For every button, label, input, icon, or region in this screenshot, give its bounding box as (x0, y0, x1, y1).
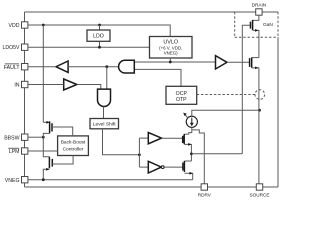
wire current source bottom node (189, 127, 192, 134)
wire T1 out to M1 gate (162, 137, 183, 139)
pin LDO5V (22, 44, 28, 50)
node VDD/left-rail junction (42, 24, 45, 27)
pin VNEG (22, 177, 28, 183)
svg-text:IN: IN (14, 83, 19, 89)
AND gate A1 (points left) (119, 60, 135, 73)
svg-text:Controller: Controller (63, 146, 84, 152)
svg-text:Back-Boost: Back-Boost (61, 140, 86, 146)
transistor Q2 lower back-boost FET (43, 137, 49, 157)
svg-text:BBSW: BBSW (4, 135, 19, 141)
wire to T2 input (139, 166, 148, 168)
current source I1 (186, 116, 197, 127)
wire BBSW pin to rail (28, 136, 43, 138)
wire to T1 input (139, 137, 148, 139)
wire IN pin to buffer (28, 84, 64, 86)
wire node to RDRV pin (192, 130, 205, 184)
pin SOURCE (256, 184, 262, 190)
wire Q2 gate to controller (52, 156, 73, 165)
wire IN buffer out to AND2 (77, 85, 101, 90)
driver buffer T1 (non-inverting) (148, 133, 161, 144)
svg-text:RDRV: RDRV (198, 192, 212, 197)
node source rail junction (258, 109, 261, 112)
wire output node to GaN gate line (191, 153, 242, 155)
IN input buffer (points right) (64, 79, 77, 90)
svg-text:LDO5V: LDO5V (2, 45, 20, 51)
pin VDD (22, 22, 28, 28)
UVLO block U2 (150, 37, 193, 59)
wire T2 out to M2 gate (164, 166, 183, 168)
inverter bubble (161, 166, 164, 169)
transistor Q1 upper back-boost FET (43, 121, 49, 123)
node VNEG junction (42, 178, 45, 181)
LDO block (87, 30, 110, 41)
svg-text:VNEG: VNEG (5, 178, 20, 184)
wire UVLO output to AND/buffer (169, 58, 171, 62)
transistor Q4 GaN HEMT (253, 15, 259, 21)
wire current source top to source rail (192, 110, 260, 116)
wire driver input vertical (138, 138, 140, 167)
pin RDRV (201, 184, 207, 190)
transistor Q5 cascode FET (252, 57, 259, 59)
svg-text:VDD: VDD (9, 23, 20, 29)
Back-Boost Controller block (58, 136, 89, 156)
wire AND1 output to FAULT buffer (68, 66, 119, 68)
node FAULT wire junction (105, 65, 108, 68)
wire Level Shift output to driver inputs (103, 129, 140, 155)
node gate drive output (190, 152, 193, 155)
AND gate A2 (points down) (98, 89, 111, 106)
pin BBSW (22, 134, 28, 140)
svg-text:GaN: GaN (263, 22, 273, 28)
pin FAULT (active low) (22, 64, 28, 70)
GaN gate line (242, 25, 250, 154)
GaN die dashed box (235, 12, 278, 37)
svg-text:Level Shift: Level Shift (93, 122, 116, 128)
wire AND2 output to level shift (103, 107, 105, 119)
node driver input junction (138, 153, 141, 156)
svg-text:SOURCE: SOURCE (249, 192, 269, 197)
wire LDO5V rail (28, 46, 150, 48)
pin DRAIN (256, 9, 262, 15)
dashed sense circle on source rail (255, 90, 265, 100)
svg-text:LDO: LDO (93, 34, 104, 40)
wire dashed OCP sense line (197, 94, 255, 96)
svg-text:VNEG): VNEG) (164, 50, 178, 55)
driver inverter T2 (148, 161, 161, 173)
svg-text:DRAIN: DRAIN (252, 2, 267, 7)
transistor M2 lower driver FET (184, 160, 191, 162)
arrow adjustable marker (185, 114, 188, 118)
svg-text:LPM: LPM (9, 149, 20, 155)
IC package outline (25, 12, 279, 187)
wire LPM pin to controller (28, 150, 58, 152)
wire T3 out to cascode gate (227, 61, 250, 63)
svg-text:OTP: OTP (176, 97, 187, 103)
node UVLO output junction (169, 61, 172, 64)
wire left vertical rail (42, 25, 44, 122)
node BBSW junction (42, 136, 45, 139)
node LDO5V/LDO junction (98, 46, 101, 49)
wire LDO top lead (99, 25, 101, 30)
transistor M1 upper driver FET (184, 133, 189, 135)
node VDD/LDO junction (98, 24, 101, 27)
pin LPM (active low) (22, 148, 28, 154)
gate drive buffer T3 (216, 56, 228, 69)
wire OCP output to AND input 2 (134, 69, 181, 86)
wire VDD rail (28, 25, 170, 37)
OCP OTP block (166, 86, 197, 104)
wire FAULT junction down to AND2 (106, 67, 108, 89)
wire FAULT pin to buffer (28, 66, 56, 68)
wire LDO bottom lead (99, 41, 101, 47)
FAULT output buffer (points left) (56, 61, 68, 72)
Level Shift block (90, 119, 119, 129)
pin IN (22, 81, 28, 87)
wire Q1 gate to controller (52, 127, 73, 136)
wire VNEG rail (28, 179, 193, 181)
svg-text:FAULT: FAULT (4, 65, 21, 71)
